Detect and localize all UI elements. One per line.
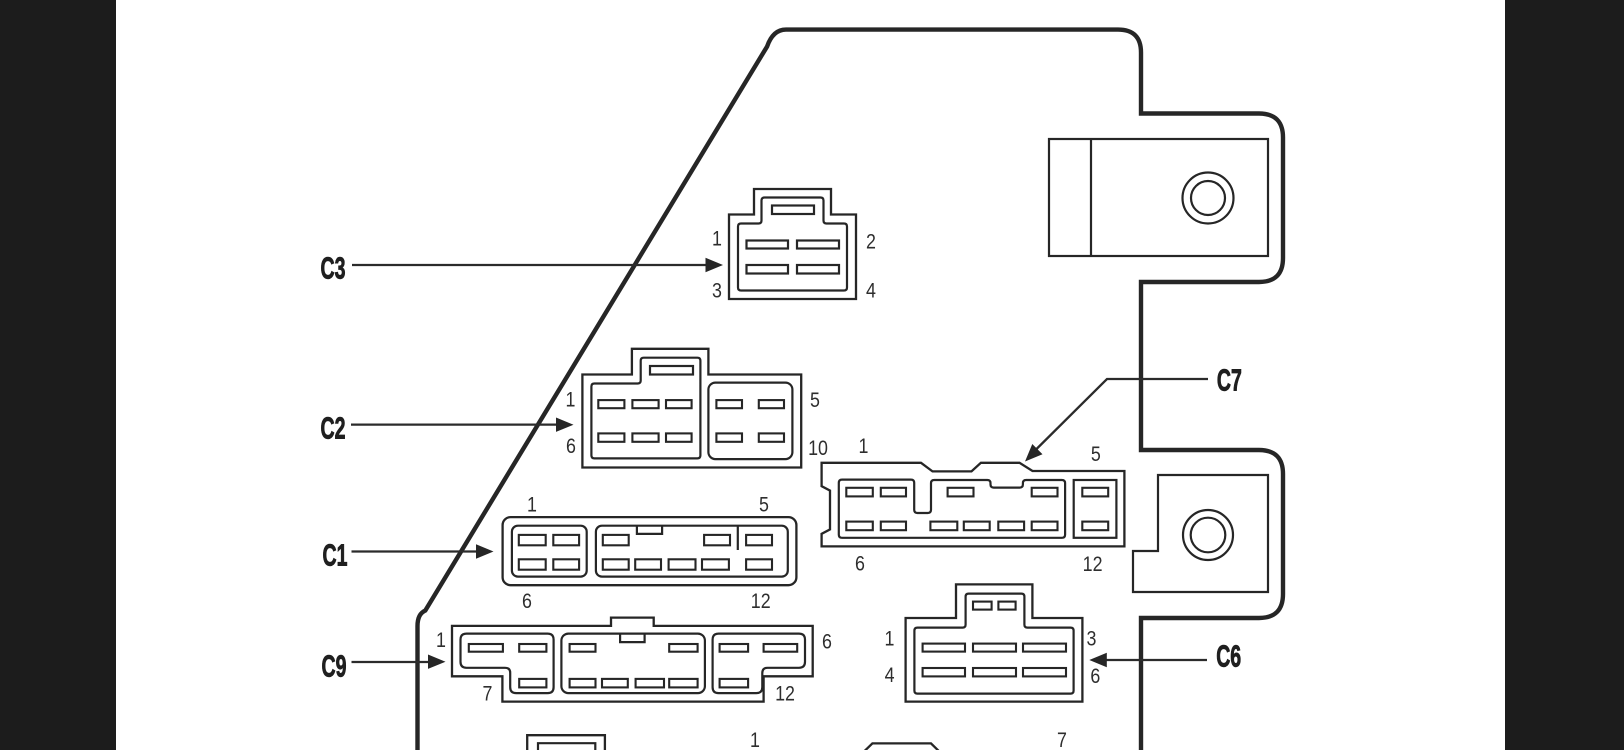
connector C9 pin 3: [570, 644, 596, 652]
connector C9 right cavity: [713, 634, 805, 694]
connector C7 pin 6: [846, 522, 873, 531]
connector C1 left cavity: [512, 526, 587, 577]
svg-text:10: 10: [808, 437, 828, 461]
connector C2 right cavity: [708, 383, 792, 460]
connector C1 pin 6: [519, 559, 546, 569]
partial connector bottom-left outer: [527, 735, 605, 750]
svg-text:1: 1: [712, 227, 722, 251]
connector C1 key notch: [637, 526, 662, 534]
bolt hole upper outer: [1183, 173, 1234, 224]
svg-text:2: 2: [866, 230, 876, 254]
connector C6 outer shell: [906, 584, 1083, 701]
connector C7 main cavity: [839, 480, 1065, 538]
arrowhead C6: [1089, 653, 1107, 667]
connector C1 pin 1: [519, 535, 546, 545]
connector C7 pin 11: [1032, 522, 1058, 531]
svg-text:6: 6: [1090, 665, 1100, 689]
connector C9 pin 5: [720, 644, 749, 652]
connector C7 pin 7: [881, 522, 906, 531]
connector C6 inner shell: [914, 594, 1073, 694]
svg-text:1: 1: [750, 729, 760, 750]
connector C7 pin 4: [1032, 488, 1058, 497]
svg-text:7: 7: [1057, 729, 1067, 750]
connector C7 pin 1: [846, 488, 873, 497]
connector C7 pin 8: [930, 522, 957, 531]
svg-text:4: 4: [866, 279, 876, 303]
connector C3 pin 2: [797, 241, 839, 249]
connector C2 key slot: [650, 366, 693, 375]
connector C1 pin 10: [669, 559, 696, 569]
connector C2 pin 2: [632, 400, 658, 408]
mounting tab relay box: [1049, 139, 1268, 256]
connector C6 pin 4: [923, 668, 965, 676]
leader line C7: [1033, 379, 1208, 453]
connector C3 outer shell: [729, 189, 856, 299]
svg-text:4: 4: [885, 664, 895, 688]
connector C6 key pin A: [973, 602, 992, 610]
connector C9 pin 7: [519, 679, 546, 688]
svg-text:6: 6: [522, 590, 532, 614]
connector C9 pin 2: [519, 644, 546, 652]
svg-text:C3: C3: [321, 252, 346, 286]
svg-text:5: 5: [759, 493, 769, 517]
connector C2 pin 7: [632, 433, 658, 441]
connector C1 pin 2: [553, 535, 579, 545]
connector C9 pin 11: [669, 679, 697, 688]
svg-text:C9: C9: [322, 650, 347, 684]
connector C6 pin 5: [973, 668, 1016, 676]
svg-text:6: 6: [855, 552, 865, 576]
mounting tab relay divider: [1090, 139, 1092, 256]
svg-text:C1: C1: [323, 539, 348, 573]
connector C3 pin 1: [747, 241, 789, 249]
connector C3 key slot: [772, 206, 814, 215]
connector C3 inner shell: [738, 198, 847, 291]
connector C2 left cavity: [591, 358, 700, 459]
connector C9 pin 10: [636, 679, 664, 688]
connector C2 pin 3: [666, 400, 692, 408]
svg-text:12: 12: [1083, 553, 1103, 577]
connector C1 pin 5: [746, 535, 772, 545]
connector C7 right cavity: [1074, 480, 1117, 538]
connector C1 pin 3: [603, 535, 629, 545]
bolt hole lower inner: [1191, 518, 1226, 553]
partial connector bottom-left inner: [538, 743, 595, 750]
svg-text:1: 1: [885, 627, 895, 651]
fuse box main outline: [418, 30, 1284, 750]
partial connector bottom-middle shell: [863, 743, 940, 750]
connector C9 left cavity: [461, 634, 554, 694]
connector C7 pin 5: [1082, 488, 1108, 497]
leader line C2: [351, 423, 558, 425]
svg-text:1: 1: [566, 388, 576, 412]
svg-text:6: 6: [566, 435, 576, 459]
arrowhead C2: [556, 418, 574, 432]
svg-text:6: 6: [822, 630, 832, 654]
connector C6 pin 3: [1023, 644, 1066, 652]
connector C6 pin 1: [923, 644, 965, 652]
connector C1 outer shell: [503, 517, 797, 585]
connector C2 pin 8: [666, 433, 692, 441]
connector C2 pin 4: [716, 400, 742, 408]
mounting bracket lower: [1133, 475, 1268, 592]
connector C7 pin 3: [948, 488, 974, 497]
connector C7 outer shell: [822, 463, 1125, 547]
connector C9 pin 12: [720, 679, 749, 688]
connector C9 middle cavity: [561, 634, 705, 694]
connector C2 pin 1: [598, 400, 624, 408]
connector C1 pin 7: [553, 559, 579, 569]
connector C3 pin 3: [747, 265, 789, 274]
connector C9 pin 1: [469, 644, 503, 652]
bolt hole lower outer: [1183, 510, 1233, 560]
leader line C9: [352, 661, 431, 663]
connector C2 pin 6: [598, 433, 624, 441]
connector C9 pin 8: [570, 679, 596, 688]
connector C1 pin 12: [746, 559, 772, 569]
connector C3 pin 4: [797, 265, 839, 274]
connector C1 divider line: [737, 526, 739, 550]
svg-text:1: 1: [859, 435, 869, 459]
connector C7 pin 10: [998, 522, 1024, 531]
leader line C1: [352, 550, 479, 552]
arrowhead C9: [428, 655, 446, 669]
connector C9 key notch: [620, 634, 645, 643]
connector C2 pin 10: [759, 433, 784, 441]
svg-text:5: 5: [1091, 442, 1101, 466]
connector C9 pin 9: [602, 679, 628, 688]
leader line C3: [352, 264, 707, 266]
connector C6 pin 2: [973, 644, 1016, 652]
connector C9 pin 4: [669, 644, 697, 652]
connector C2 pin 5: [759, 400, 784, 408]
connector C1 right cavity: [596, 526, 788, 577]
connector C6 pin 6: [1023, 668, 1066, 676]
connector C9 outer shell: [452, 618, 813, 702]
connector C2 outer shell: [582, 349, 801, 468]
svg-text:12: 12: [751, 590, 771, 614]
svg-text:1: 1: [527, 493, 537, 517]
bolt hole upper inner: [1191, 181, 1225, 215]
arrowhead C7: [1025, 444, 1043, 462]
arrowhead C1: [476, 544, 494, 558]
arrowhead C3: [706, 258, 724, 272]
svg-text:C7: C7: [1217, 364, 1242, 398]
connector C2 pin 9: [716, 433, 742, 441]
svg-text:5: 5: [810, 389, 820, 413]
connector C7 pin 12: [1082, 522, 1108, 531]
svg-text:1: 1: [436, 629, 446, 653]
svg-text:C2: C2: [321, 412, 346, 446]
svg-text:C6: C6: [1216, 640, 1241, 674]
connector C1 pin 8: [603, 559, 629, 569]
connector C1 pin 11: [702, 559, 729, 569]
connector C1 pin 9: [635, 559, 661, 569]
svg-text:3: 3: [712, 279, 722, 303]
svg-text:12: 12: [775, 682, 795, 706]
svg-text:3: 3: [1087, 627, 1097, 651]
connector C1 pin 4: [704, 535, 730, 545]
leader line C6: [1105, 659, 1207, 661]
connector C9 pin 6: [764, 644, 798, 652]
svg-text:7: 7: [483, 682, 493, 706]
connector C6 key pin B: [998, 602, 1015, 610]
connector C7 pin 9: [964, 522, 990, 531]
connector C7 pin 2: [881, 488, 906, 497]
